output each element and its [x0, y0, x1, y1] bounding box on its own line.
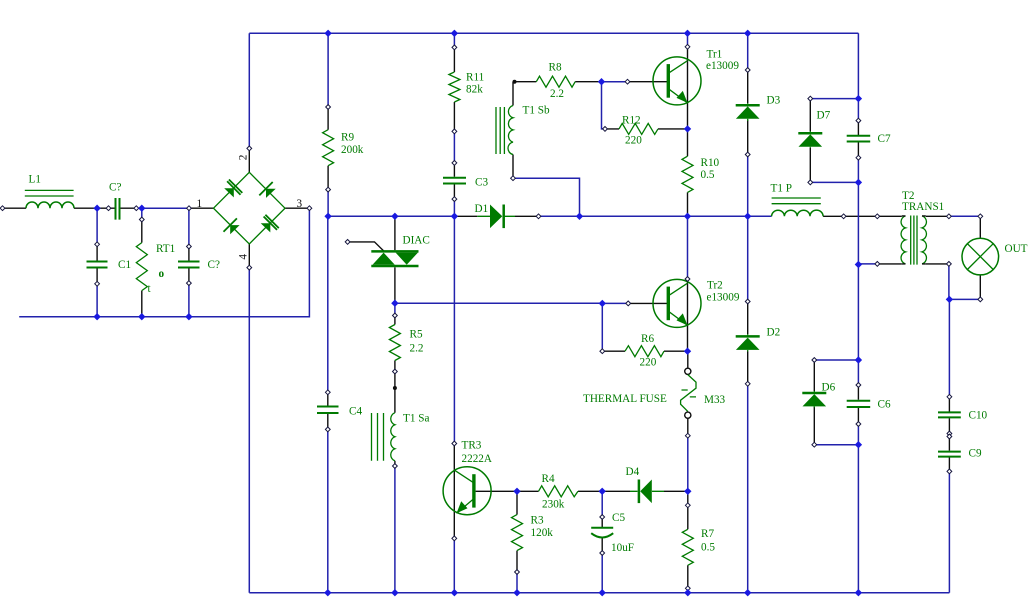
- resistor R8: [536, 76, 575, 87]
- triac DIAC: [371, 251, 418, 266]
- capacitor C4: [317, 407, 339, 414]
- wire: bridge pin 3 down to left return rail: [19, 208, 309, 317]
- transformer winding T1 Sa: [372, 413, 395, 461]
- resistor R3: [512, 515, 523, 551]
- resistor R6: [625, 346, 664, 357]
- node: C1 top pin: [95, 242, 100, 247]
- junction: DIAC bottom row left: [391, 300, 398, 307]
- svg-text:120k: 120k: [531, 527, 554, 539]
- wire: R11 column top: [453, 33, 455, 216]
- thermistor RT1: [136, 243, 147, 291]
- junction: bottom bus at R7: [684, 589, 691, 596]
- svg-text:R3: R3: [531, 515, 544, 527]
- wire: T2 primary top lead: [877, 215, 902, 217]
- node: R7 top pin: [685, 503, 690, 508]
- capacitor C5 (polarized): [591, 528, 613, 538]
- node: R12 left pin: [603, 127, 608, 132]
- node: T1 Sb bottom pin: [511, 176, 516, 181]
- node: D2 top pin: [745, 299, 750, 304]
- resistor R10: [682, 156, 693, 192]
- wire: C6 leads: [857, 385, 859, 424]
- node: fuse bottom pin: [685, 433, 690, 438]
- wire: Tr1 collector from top bus: [687, 33, 689, 47]
- wire: T2 primary bottom to right bus: [858, 263, 877, 265]
- wire: fuse node down to D4 junction: [687, 436, 689, 492]
- svg-text:D3: D3: [767, 95, 781, 107]
- resistor R7: [682, 529, 693, 565]
- junction: top bus at R11: [451, 30, 458, 37]
- junction: bottom bus at TR3: [451, 589, 458, 596]
- junction: right bus at T2 primary bottom: [855, 261, 862, 268]
- wire: C? leads on input row: [97, 207, 136, 209]
- resistor R12: [619, 123, 658, 134]
- wire: bridge pin 4 lead: [248, 244, 250, 268]
- node: C6 top pin: [856, 383, 861, 388]
- wire: T2 secondary top lead: [926, 215, 949, 217]
- wire: thermal fuse bottom lead: [687, 418, 689, 435]
- svg-text:2.2: 2.2: [410, 343, 424, 355]
- svg-text:C10: C10: [969, 410, 988, 422]
- svg-text:OUT: OUT: [1005, 243, 1028, 255]
- node: input terminal: [0, 206, 5, 211]
- node: Tr2 collector pin: [685, 277, 690, 282]
- node: C10 top pin: [947, 394, 952, 399]
- junction: R5 / T1 Sa (black): [393, 386, 397, 390]
- svg-text:TR3: TR3: [462, 440, 482, 452]
- node: C? right pin: [134, 206, 139, 211]
- resistor R11: [449, 72, 460, 102]
- wire: R9 column from top bus: [327, 33, 329, 216]
- node: C7 bottom pin: [856, 155, 861, 160]
- svg-text:o: o: [159, 268, 165, 280]
- svg-text:D7: D7: [817, 110, 831, 122]
- wire: bridge pin 2 lead: [248, 148, 250, 172]
- wire: Tr2 collector from mid bus: [687, 216, 689, 279]
- node: D3 top pin: [745, 68, 750, 73]
- inductor L1: [25, 190, 74, 208]
- bridge diode top-left: [224, 180, 242, 198]
- junction: Tr2 base: [599, 300, 606, 307]
- node: T2 primary top pin: [875, 214, 880, 219]
- wire: bottom bus: [249, 592, 949, 594]
- node: RT1 top pin: [139, 217, 144, 222]
- wire: TR3 vertical through transistor: [453, 444, 455, 539]
- junction: Tr1 emitter / R12: [684, 125, 691, 132]
- wire: C9 node to bottom bus: [948, 471, 950, 592]
- junction: right bus at D6 bottom: [855, 441, 862, 448]
- diode D4: [630, 480, 664, 504]
- wire: C5 leads: [601, 517, 603, 553]
- wire: T1 Sa bottom lead: [394, 461, 396, 466]
- node: D6 bottom pin: [812, 442, 817, 447]
- capacitor C6: [847, 401, 871, 407]
- capacitor C3: [443, 178, 466, 184]
- node: C3 bottom pin: [452, 197, 457, 202]
- wire: D7 leads: [809, 99, 811, 183]
- svg-text:0.5: 0.5: [701, 542, 715, 554]
- wire: Tr1 collector-emitter vertical: [687, 47, 689, 129]
- wire: C4 leads: [327, 392, 329, 429]
- svg-text:L1: L1: [29, 174, 41, 186]
- wire: R7 leads: [687, 491, 689, 592]
- wire: D1 right lead to node: [515, 215, 539, 217]
- junction: mid bus at T1 Sb return: [576, 213, 583, 220]
- wire: D3 leads: [747, 70, 749, 155]
- capacitor C? (series input): [116, 198, 120, 220]
- wire: D3 column: [747, 33, 749, 216]
- wire: bridge pin 4 down to bottom bus: [248, 268, 250, 593]
- node: D2 bottom pin: [745, 381, 750, 386]
- capacitor C10: [938, 412, 961, 417]
- svg-text:t: t: [148, 283, 152, 295]
- node: TR3 collector pin: [452, 441, 457, 446]
- wire: RT1 column: [141, 208, 143, 219]
- wire: L1 to C? junction: [74, 207, 97, 209]
- wire: C1 column: [96, 208, 98, 317]
- svg-text:T1 P: T1 P: [771, 183, 792, 195]
- svg-text:82k: 82k: [466, 84, 483, 96]
- junction: left rail at C?2: [185, 313, 192, 320]
- wire: D1 left lead: [454, 215, 477, 217]
- wire: Tr2 base lead: [628, 302, 667, 304]
- junction: mid bus at C3: [451, 213, 458, 220]
- svg-text:e13009: e13009: [706, 60, 739, 72]
- svg-text:R10: R10: [701, 157, 720, 169]
- node: DIAC gate pin: [345, 240, 350, 245]
- wire: Tr1 base lead: [628, 81, 668, 83]
- capacitor C7: [847, 136, 871, 142]
- wire: C10 to C9 link: [948, 434, 950, 437]
- svg-text:220: 220: [640, 357, 657, 369]
- svg-text:R8: R8: [549, 62, 562, 74]
- wire: C10 leads: [948, 397, 950, 434]
- svg-text:R4: R4: [542, 473, 555, 485]
- node: D6 top pin: [812, 358, 817, 363]
- svg-text:M33: M33: [704, 394, 726, 406]
- svg-text:T1 Sa: T1 Sa: [403, 413, 429, 425]
- node: T2 secondary top pin: [947, 214, 952, 219]
- node: R3 bottom pin: [515, 570, 520, 575]
- node: D3 bottom pin: [745, 152, 750, 157]
- junction: left rail at C1: [93, 313, 100, 320]
- bridge rectifier frame: [214, 172, 286, 244]
- node: C10 bottom pin: [947, 431, 952, 436]
- lamp OUT: [962, 238, 999, 275]
- svg-text:1: 1: [197, 198, 203, 210]
- transformer winding T1 Sb: [496, 106, 513, 155]
- wire: bridge pin 3 lead: [285, 207, 309, 209]
- wire: thermal fuse top lead: [687, 351, 689, 368]
- junction: right bus at D6 top: [855, 356, 862, 363]
- wire: input lead to L1: [3, 207, 27, 209]
- wire: lamp top lead: [979, 216, 981, 238]
- junction: R8 output: [598, 78, 605, 85]
- junction: R4 left / TR3 base: [513, 488, 520, 495]
- svg-text:RT1: RT1: [156, 243, 175, 255]
- node: Tr2 base pin: [626, 301, 631, 306]
- wire: T2 secondary top to lamp corner: [949, 215, 980, 217]
- capacitor C9: [938, 452, 961, 457]
- resistor R5: [389, 325, 400, 361]
- diode D3: [736, 103, 760, 121]
- wire: D2 column: [747, 216, 749, 592]
- diode D6: [802, 391, 826, 408]
- node: bridge pin 4: [247, 265, 252, 270]
- svg-text:2222A: 2222A: [462, 453, 492, 465]
- diode D1: [477, 205, 515, 229]
- wire: R4 leads: [517, 490, 602, 492]
- node: R7 bottom pin: [685, 586, 690, 591]
- node: bridge pin 3: [307, 206, 312, 211]
- svg-text:3: 3: [297, 198, 303, 210]
- inductor T1 P: [772, 198, 824, 216]
- node: C4 top pin: [325, 390, 330, 395]
- node: C9 top pin: [947, 434, 952, 439]
- node: R9 bottom pin: [326, 187, 331, 192]
- transformer T2 TRANS1: [901, 216, 926, 265]
- svg-text:C9: C9: [969, 448, 982, 460]
- wire: T1 Sb top lead: [512, 82, 514, 106]
- wire: node to RT1 junction and to bridge pin 1: [136, 207, 189, 209]
- bridge diode bottom-left: [224, 218, 240, 234]
- junction: left rail at RT1: [138, 313, 145, 320]
- wire: R6 leads: [602, 350, 687, 352]
- junction: top bus at R9: [324, 30, 331, 37]
- wire: lamp bottom lead: [979, 275, 981, 300]
- wire: R10 leads: [687, 129, 689, 216]
- junction: lamp bottom / C10: [946, 296, 953, 303]
- svg-text:e13009: e13009: [707, 292, 740, 304]
- wire: DIAC bottom lead: [394, 267, 396, 303]
- node: T2 primary bottom pin: [875, 262, 880, 267]
- junction: D4 right / R7: [684, 488, 691, 495]
- wire: Tr2 base down to R6: [601, 303, 603, 351]
- bridge diode bottom-right: [261, 215, 279, 233]
- wire: right bus vertical: [857, 33, 859, 592]
- node: T1 Sa bottom pin: [393, 464, 398, 469]
- wire: C?2 leads: [188, 247, 190, 284]
- wire: DIAC gate lead: [348, 242, 384, 251]
- wire: T1 Sb bottom to mid bus: [513, 178, 580, 216]
- svg-text:C6: C6: [878, 399, 891, 411]
- node: R11 top pin: [452, 45, 457, 50]
- junction: mid bus at D3/D2: [744, 213, 751, 220]
- svg-text:TRANS1: TRANS1: [902, 201, 944, 213]
- junction: input row at C1: [93, 205, 100, 212]
- svg-text:D1: D1: [475, 203, 489, 215]
- wire: C7 leads: [857, 121, 859, 158]
- node: Tr1 collector pin: [685, 44, 690, 49]
- svg-text:R11: R11: [466, 72, 484, 84]
- wire: DIAC row to Tr2 base: [395, 302, 602, 304]
- wire: R5 leads: [394, 316, 396, 413]
- transistor Tr2 e13009: [653, 279, 701, 327]
- wire: bridge pin 1 lead: [189, 207, 214, 209]
- junction: right bus at D7 bottom: [855, 179, 862, 186]
- wire: T2 secondary bottom lead: [926, 263, 949, 265]
- svg-text:220: 220: [625, 135, 642, 147]
- transistor Tr1 e13009: [653, 57, 701, 105]
- node: T1 P right pin: [841, 214, 846, 219]
- svg-text:C?: C?: [208, 259, 220, 271]
- node: T2 secondary bottom pin: [947, 262, 952, 267]
- svg-text:C5: C5: [612, 512, 625, 524]
- wire: main mid bus left part: [328, 215, 454, 217]
- wire: R8 junction down to R12: [602, 82, 606, 129]
- svg-text:D4: D4: [626, 466, 640, 478]
- svg-text:DIAC: DIAC: [403, 235, 430, 247]
- wire: R3 column leads: [516, 491, 518, 572]
- wire: D6 leads: [813, 360, 815, 445]
- resistor R9: [323, 130, 334, 166]
- junction: input row at RT1: [138, 205, 145, 212]
- node: bridge pin 1: [187, 206, 192, 211]
- wire: R9 leads: [327, 107, 329, 190]
- svg-text:C7: C7: [878, 133, 891, 145]
- wire: T2 primary bottom lead: [877, 263, 902, 265]
- wire: D2 leads: [747, 302, 749, 384]
- svg-text:R6: R6: [641, 333, 654, 345]
- svg-text:C?: C?: [109, 182, 121, 194]
- junction: bottom bus at R3: [513, 589, 520, 596]
- node: R5 bottom pin: [393, 369, 398, 374]
- svg-text:R12: R12: [622, 115, 641, 127]
- svg-text:R5: R5: [410, 329, 423, 341]
- wire: lamp bottom to C10 column: [949, 298, 980, 300]
- wire: mid bus D1 node to T1 P: [539, 215, 772, 217]
- svg-text:Tr2: Tr2: [707, 280, 723, 292]
- node: C9 bottom pin: [947, 469, 952, 474]
- node: D7 bottom pin: [808, 180, 813, 185]
- wire: R5 column: [394, 303, 396, 315]
- junction: bottom bus at C5: [599, 589, 606, 596]
- svg-text:2.2: 2.2: [550, 88, 564, 100]
- node: C?2 top pin: [187, 244, 192, 249]
- svg-text:T1 Sb: T1 Sb: [523, 105, 550, 117]
- junction: bottom bus at C4: [324, 589, 331, 596]
- node: C5 top pin: [600, 515, 605, 520]
- junction: mid bus at R9: [324, 213, 331, 220]
- node: R9 top pin: [326, 105, 331, 110]
- junction: mid bus at R10: [684, 213, 691, 220]
- svg-text:C3: C3: [475, 177, 488, 189]
- node: R5 top pin: [393, 313, 398, 318]
- wire: T2 secondary bottom down to C10: [948, 264, 951, 397]
- junction: top bus at D3: [744, 30, 751, 37]
- svg-text:Tr1: Tr1: [707, 49, 723, 61]
- node: Tr1 base pin: [625, 79, 630, 84]
- svg-text:230k: 230k: [542, 499, 565, 511]
- node: C3 top pin: [452, 161, 457, 166]
- wire: RT1 leads: [141, 220, 143, 317]
- svg-text:C1: C1: [118, 259, 131, 271]
- transistor TR3 2222A: [443, 467, 491, 515]
- node: C?2 bottom pin: [187, 281, 192, 286]
- node: C6 bottom pin: [856, 422, 861, 427]
- junction: R4 right / C5: [599, 488, 606, 495]
- junction: mid bus at DIAC: [391, 213, 398, 220]
- node: C1 bottom pin: [95, 281, 100, 286]
- wire: D6 branch top: [814, 359, 858, 361]
- svg-text:10uF: 10uF: [611, 542, 634, 554]
- svg-text:D2: D2: [767, 327, 781, 339]
- wire: R11 and C3 leads: [453, 47, 455, 199]
- wire: D7 branch bottom: [810, 181, 858, 183]
- wire: TR3 base lead: [476, 490, 517, 492]
- node: lamp top pin: [978, 214, 983, 219]
- capacitor C? (to bridge): [178, 262, 200, 268]
- wire: TR3 emitter node to bottom bus: [453, 538, 455, 592]
- wire: R12 leads: [605, 128, 688, 130]
- svg-text:R9: R9: [341, 132, 354, 144]
- node: lamp bottom pin: [978, 297, 983, 302]
- wire: C?2 column: [188, 208, 190, 317]
- svg-text:4: 4: [238, 254, 250, 260]
- svg-text:0.5: 0.5: [701, 169, 715, 181]
- svg-text:THERMAL FUSE: THERMAL FUSE: [583, 393, 667, 405]
- svg-text:C4: C4: [349, 406, 362, 418]
- node: bridge pin 2: [247, 146, 252, 151]
- wire: bridge pin 2 up to top bus: [248, 33, 250, 148]
- node: C7 top pin: [856, 118, 861, 123]
- capacitor C1: [87, 262, 108, 268]
- node: R6 left pin: [600, 349, 605, 354]
- wire: C9 leads: [948, 437, 950, 472]
- junction: right bus at D7 top: [855, 95, 862, 102]
- wire: T1 Sa node to bottom bus: [394, 466, 396, 593]
- resistor R4: [539, 486, 579, 497]
- wire: C1 leads: [96, 244, 98, 283]
- diode D2: [736, 334, 760, 351]
- thermal fuse M33: [681, 368, 696, 418]
- wire: Tr2 base node wire: [602, 302, 628, 304]
- wire: C5 column: [601, 491, 603, 592]
- junction: Tr2 emitter / R6: [684, 348, 691, 355]
- node: TR3 emitter pin: [452, 536, 457, 541]
- wire: DIAC top lead: [394, 216, 396, 250]
- junction: top bus at Tr1: [684, 30, 691, 37]
- junction: T1 Sb top (black): [513, 80, 517, 84]
- wire: top bus: [249, 32, 858, 34]
- svg-text:R7: R7: [701, 528, 714, 540]
- wire: Tr2 collector-emitter vertical: [687, 279, 689, 351]
- wire: R8 leads: [515, 81, 602, 83]
- diode D7: [798, 131, 822, 148]
- svg-text:D6: D6: [822, 382, 836, 394]
- node: C5 bottom pin: [600, 551, 605, 556]
- wire: T1 P right lead: [823, 215, 877, 217]
- node: C4 bottom pin: [325, 427, 330, 432]
- wire: T1 Sb bottom lead: [512, 155, 514, 179]
- svg-text:2: 2: [238, 155, 250, 161]
- wire: R3 node to bottom bus: [516, 572, 518, 593]
- wire: D6 branch bottom: [814, 444, 858, 446]
- junction: bottom bus at T1 Sa: [391, 589, 398, 596]
- wire: D7 branch top: [810, 98, 858, 100]
- node: D1 cathode pin: [536, 214, 541, 219]
- svg-text:200k: 200k: [341, 144, 364, 156]
- wire: mid bus down to TR3: [453, 216, 455, 443]
- wire: C4 column: [327, 216, 329, 592]
- bridge diode top-right: [259, 182, 275, 198]
- node: C? left pin: [106, 206, 111, 211]
- wire: D4 leads: [602, 490, 688, 492]
- junction: bottom bus at D2: [744, 589, 751, 596]
- node: D7 top pin: [808, 96, 813, 101]
- node: R11 bottom pin: [452, 129, 457, 134]
- wire: R8 junction to Tr1 base node: [602, 81, 628, 83]
- junction: bottom bus at right bus: [855, 589, 862, 596]
